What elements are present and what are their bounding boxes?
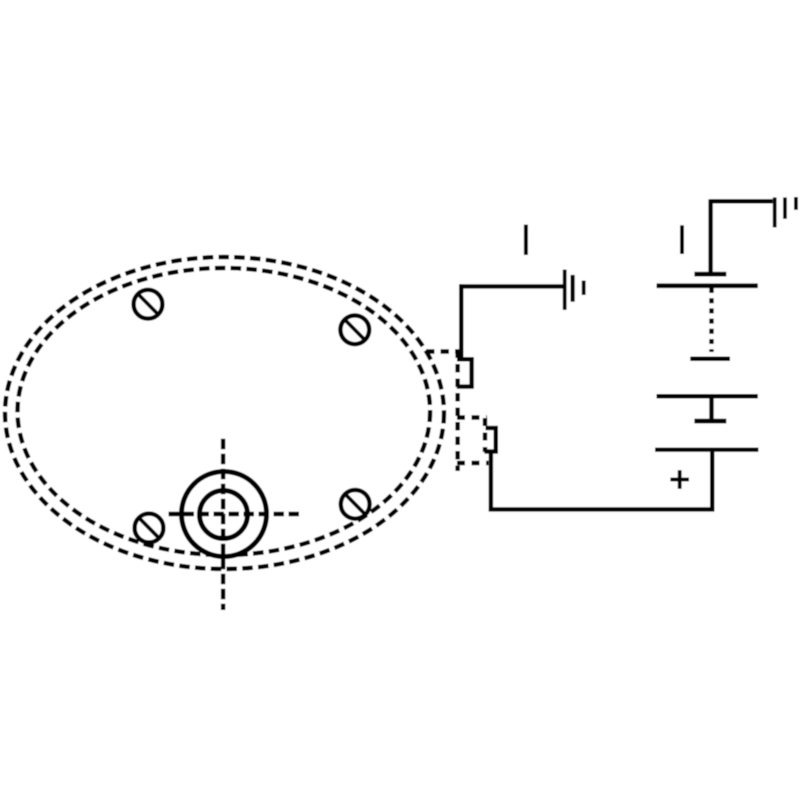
wire down to battery top (708, 199, 712, 273)
wire to ground G1 (459, 284, 565, 288)
shaft inner circle (200, 491, 248, 539)
motor housing inner dashed outline (18, 268, 431, 555)
wire bottom horizontal (489, 507, 714, 511)
terminal T2 (lower solid clip) (484, 426, 498, 454)
connector block dashed bottom edge (457, 461, 489, 465)
wire from ground G2 (711, 199, 773, 203)
motor housing outer dashed outline (5, 257, 444, 569)
battery plate P6 (long positive) (655, 448, 758, 452)
wire from terminal T1 up (459, 284, 463, 359)
wire up to battery plus plate (710, 452, 714, 512)
label + (positive terminal) (670, 470, 689, 489)
shaft bushing outer circle (182, 472, 267, 557)
connector block dashed top edge (426, 349, 461, 353)
connector block dashed left edge (455, 352, 459, 471)
connector block dashed divider edge (457, 415, 487, 419)
terminal T1 (upper solid clip) (457, 357, 474, 388)
battery plate P4 (long positive) (657, 394, 758, 399)
screw S4 (bottom right) (341, 490, 370, 519)
screw S1 (top left) (134, 290, 163, 319)
battery omitted-cells dashed link (709, 288, 713, 352)
horizontal centerline of shaft (169, 512, 303, 516)
connector block dashed right edge (483, 418, 487, 452)
ground G1 (563, 270, 586, 310)
screw S3 (bottom left) (135, 514, 164, 543)
battery plate P1 (short negative) (694, 272, 726, 277)
battery plate P5 (short negative) (694, 419, 726, 424)
wire from terminal T2 down (489, 452, 493, 512)
vertical centerline of shaft (221, 439, 225, 610)
battery plate P2 (long positive) (657, 283, 758, 288)
ground G2 (top right) (773, 197, 798, 227)
battery plate P3 (short negative) (690, 357, 730, 362)
battery inter-cell link (709, 398, 713, 421)
label I (right) (680, 225, 684, 254)
label I (left) (524, 225, 528, 255)
screw S2 (top right) (340, 315, 369, 344)
